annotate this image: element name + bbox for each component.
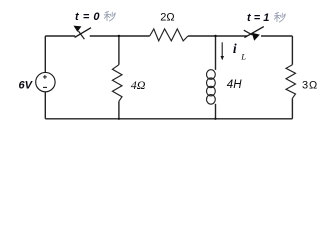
wire top-left segment [45,35,75,37]
inductor 4H coil loop 3 [207,86,216,96]
current arrow iL head [221,56,225,60]
current arrow iL shaft [221,42,223,56]
voltage source plus sign [43,75,47,79]
junction node top of inductor branch [214,35,216,37]
wire bottom [45,118,292,120]
switch S2 arrow shaft [244,30,253,35]
voltage source minus sign [43,86,47,88]
voltage source 6V circle [36,72,55,91]
wire 4ohm branch top [118,36,120,65]
wire between resistor 2ohm and switch S2 [188,35,247,37]
switch S1 (t=0) blade [75,28,91,38]
wire 4ohm branch bottom [118,101,120,119]
wire inductor branch bottom [215,104,217,119]
svg-text:3Ω: 3Ω [302,80,318,92]
svg-text:L: L [240,52,246,62]
switch S1 arrowhead [74,26,82,32]
wire left side below source [44,92,46,119]
svg-text:4Ω: 4Ω [131,78,146,92]
junction node bottom of 4ohm branch [118,118,120,120]
switch S1 arrow shaft [78,31,84,39]
svg-text:t = 1: t = 1 [247,12,269,24]
svg-text:i: i [233,41,237,56]
label miao (seconds) left, drawn glyph [104,12,115,21]
inductor 4H coil loop 1 [207,70,216,80]
junction node top of 4ohm branch [118,35,120,37]
inductor 4H coil loop 2 [207,78,216,88]
resistor 3ohm zigzag [286,65,296,99]
svg-text:6V: 6V [19,79,34,91]
wire inductor branch top [215,36,217,70]
svg-text:4H: 4H [227,79,242,91]
resistor 4ohm zigzag [112,65,122,102]
wire between switch S1 and resistor 2ohm [90,35,150,37]
wire top-right segment [261,35,292,37]
label miao (seconds) right, drawn glyph [274,13,285,22]
wire 3ohm branch top [291,36,293,65]
switch S2 arrowhead [252,33,260,41]
switch S2 (t=1) blade [244,27,263,38]
wire 3ohm branch bottom [291,98,293,119]
resistor 2ohm zigzag [150,29,188,41]
svg-text:2Ω: 2Ω [160,12,174,24]
inductor 4H coil loop 4 [207,95,216,105]
junction node bottom of inductor branch [214,118,216,120]
svg-text:t = 0: t = 0 [75,11,100,23]
wire left side above source [44,36,46,72]
